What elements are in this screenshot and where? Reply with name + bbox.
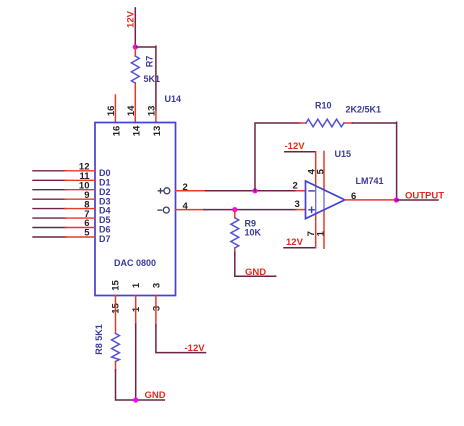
- svg-text:GND: GND: [245, 267, 266, 278]
- svg-text:1: 1: [131, 282, 142, 288]
- svg-text:1: 1: [131, 306, 142, 312]
- wire output net: [396, 199, 438, 201]
- svg-text:D2: D2: [99, 187, 111, 197]
- wire D7 bus: [33, 236, 66, 238]
- junction R7 top node: [133, 44, 138, 49]
- power rail +12V (opamp): [284, 247, 316, 249]
- op-amp U15 triangle: [306, 181, 345, 219]
- wire D2 bus: [33, 189, 66, 191]
- opamp input stub pin3: [296, 209, 306, 211]
- resistor R10: [300, 122, 352, 124]
- svg-text:-12V: -12V: [185, 343, 206, 354]
- svg-text:3: 3: [151, 283, 162, 288]
- svg-text:R7: R7: [145, 56, 155, 68]
- wire DAC pin4 to opamp: [204, 209, 296, 211]
- svg-text:DAC 0800: DAC 0800: [114, 258, 156, 268]
- wire R10 right to output node: [352, 122, 396, 200]
- junction gnd node: [133, 397, 138, 402]
- wire D1 bus: [33, 179, 66, 181]
- junction node pin2/feedback: [252, 188, 257, 193]
- svg-text:16: 16: [106, 106, 117, 117]
- resistor R7: [134, 47, 136, 123]
- resistor R8: [112, 333, 120, 361]
- svg-text:3: 3: [151, 306, 162, 311]
- svg-text:14: 14: [132, 125, 143, 136]
- svg-text:U15: U15: [335, 149, 352, 159]
- svg-text:D7: D7: [99, 234, 111, 244]
- pin stub DAC pin2: [176, 190, 206, 192]
- svg-text:13: 13: [152, 126, 163, 137]
- power rail -12V (opamp): [285, 151, 316, 153]
- junction output node: [394, 197, 399, 202]
- svg-text:15: 15: [110, 280, 121, 291]
- wire +12V vertical: [134, 8, 136, 47]
- svg-text:-12V: -12V: [285, 141, 306, 152]
- opamp pin 1 stub: [323, 210, 325, 248]
- pin name -O: [158, 207, 169, 213]
- opamp pin 5 stub: [323, 151, 325, 190]
- opamp pin 4 stub: [315, 152, 317, 186]
- opamp input stub pin2: [296, 190, 306, 192]
- wire D3 bus: [33, 198, 66, 200]
- opamp minus input mark: [309, 190, 314, 192]
- pin name +O: [158, 188, 170, 194]
- wire opamp output: [345, 199, 397, 201]
- svg-text:2: 2: [293, 181, 298, 192]
- svg-text:R10: R10: [315, 101, 332, 111]
- svg-text:U14: U14: [165, 94, 182, 104]
- svg-text:10K: 10K: [245, 227, 262, 237]
- svg-text:3: 3: [295, 199, 300, 210]
- wire R8 to gnd rail: [116, 370, 165, 400]
- resistor R9: [234, 210, 236, 253]
- pin stub 15: [115, 296, 117, 334]
- svg-text:GND: GND: [145, 390, 166, 401]
- svg-text:D4: D4: [99, 206, 111, 216]
- wire D6 bus: [33, 227, 66, 229]
- svg-text:OUTPUT: OUTPUT: [405, 191, 444, 202]
- svg-text:D6: D6: [99, 225, 111, 235]
- svg-text:5: 5: [316, 168, 327, 174]
- IC U14 DAC0800 body: [95, 123, 176, 296]
- wire D4 bus: [33, 208, 66, 210]
- svg-text:1: 1: [316, 230, 327, 236]
- pin stub 16: [114, 95, 116, 123]
- wire feedback up from pin2 node: [255, 123, 300, 191]
- opamp pin 7 stub: [315, 214, 317, 248]
- svg-text:5K1: 5K1: [144, 74, 161, 84]
- opamp internal pin lines: [316, 186, 324, 214]
- wire D0 bus: [33, 170, 66, 172]
- wire pin1 to gnd: [135, 324, 137, 400]
- svg-text:5: 5: [84, 228, 90, 239]
- wire DAC pin2 to opamp: [206, 190, 297, 192]
- svg-text:12V: 12V: [286, 237, 304, 248]
- wire D5 bus: [33, 217, 66, 219]
- svg-text:2K2/5K1: 2K2/5K1: [346, 105, 382, 115]
- svg-text:D0: D0: [99, 168, 111, 178]
- svg-text:LM741: LM741: [356, 176, 384, 186]
- pin stub 3 (DAC): [155, 296, 157, 326]
- svg-text:4: 4: [183, 201, 189, 212]
- pin stub 13: [155, 110, 157, 123]
- pin stub DAC pin4: [176, 209, 205, 211]
- svg-text:R8 5K1: R8 5K1: [94, 324, 104, 355]
- wire R9 to GND: [235, 253, 276, 277]
- svg-text:16: 16: [112, 126, 123, 137]
- opamp plus input mark: [309, 207, 314, 212]
- svg-text:14: 14: [126, 105, 137, 116]
- pin stub 1 (DAC): [135, 296, 137, 325]
- junction node pin4/R9: [232, 207, 237, 212]
- svg-text:13: 13: [146, 106, 157, 117]
- wire pin3 to -12V: [156, 325, 206, 353]
- wire junction to pin 13: [135, 46, 156, 110]
